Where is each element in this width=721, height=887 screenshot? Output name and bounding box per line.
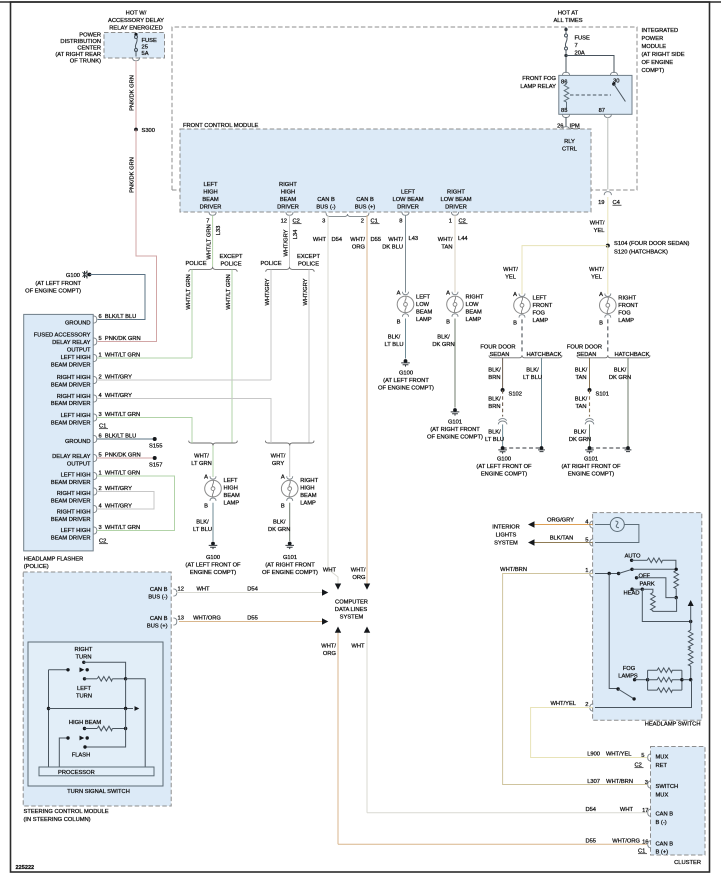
svg-text:HEADLAMP FLASHER: HEADLAMP FLASHER [24, 557, 84, 563]
label FOUR DOOR SEDAN / HATCHBACK left fog [480, 345, 561, 358]
svg-text:PROCESSOR: PROCESSOR [58, 770, 95, 776]
wire FCM pin 8 to left low beam lamp WHT/DK BLU [405, 215, 407, 292]
svg-text:WHT/YEL: WHT/YEL [550, 701, 576, 707]
node below fuse 7 [564, 54, 567, 57]
processor box [39, 767, 154, 776]
wire WHT/LT GRN police branch (into flasher pin 1) [191, 269, 193, 358]
ground G101 fog dashed tie [590, 447, 629, 449]
svg-text:TURN: TURN [76, 694, 92, 700]
svg-text:ENGINE COMPT): ENGINE COMPT) [568, 472, 614, 478]
svg-text:LAMP: LAMP [416, 317, 432, 323]
wire pin 7 to left split [212, 215, 214, 266]
wire BLK/DK GRN hatchback branch [627, 358, 629, 448]
svg-text:WHT/: WHT/ [350, 237, 365, 243]
wire bottom bus to fog junction [595, 680, 692, 708]
fog resistor bank [646, 678, 649, 681]
wire WHT/ORG from cluster up into data lines system [337, 633, 339, 845]
svg-text:G101: G101 [448, 420, 462, 426]
node at fuse 25 top [134, 33, 137, 36]
svg-text:5: 5 [641, 753, 644, 759]
svg-text:RIGHT: RIGHT [618, 296, 636, 302]
svg-text:L43: L43 [409, 236, 419, 242]
svg-text:(POLICE): (POLICE) [24, 564, 49, 570]
wire WHT/ORG D55 from steering module to data lines system [179, 621, 322, 623]
svg-text:DRIVER: DRIVER [200, 205, 222, 211]
relay switch arm [612, 82, 615, 85]
svg-text:RIGHT HIGH: RIGHT HIGH [57, 510, 91, 516]
wire WHT/BRN from switch to cluster pin 3 [503, 574, 647, 785]
wire BLK/LT BLU to G100 [502, 424, 504, 448]
svg-text:POWER: POWER [79, 33, 101, 39]
svg-text:7: 7 [575, 43, 578, 49]
arrow down WHT/ORG [364, 584, 370, 590]
headlamp flasher box [24, 314, 94, 551]
svg-text:RIGHT: RIGHT [75, 647, 93, 653]
svg-text:HOT W/: HOT W/ [126, 11, 147, 17]
svg-text:COMPUTER: COMPUTER [335, 600, 368, 606]
wire label WHT/GRY [271, 454, 286, 468]
svg-text:LEFT: LEFT [224, 478, 239, 484]
svg-text:B: B [446, 320, 450, 326]
svg-text:85: 85 [561, 108, 567, 114]
turn switch arm 1 [49, 669, 69, 671]
svg-text:WHT: WHT [313, 237, 327, 243]
wire junction down to bus [125, 679, 127, 709]
split bracket left fog [489, 355, 562, 358]
svg-text:INTERIOR: INTERIOR [492, 525, 519, 531]
svg-text:225222: 225222 [16, 865, 35, 871]
wire fuse 7 to relay pin 30 [566, 56, 614, 74]
svg-text:ORG: ORG [352, 245, 366, 251]
svg-text:DELAY RELAY: DELAY RELAY [52, 454, 91, 460]
svg-text:(AT LEFT FRONT OF: (AT LEFT FRONT OF [476, 464, 532, 470]
svg-text:WHT/: WHT/ [271, 454, 286, 460]
computer data lines system label [335, 600, 368, 621]
svg-text:8: 8 [399, 219, 402, 225]
svg-text:HEADLAMP SWITCH: HEADLAMP SWITCH [645, 722, 701, 728]
svg-text:WHT/BRN: WHT/BRN [500, 567, 527, 573]
svg-text:CAN B: CAN B [356, 197, 374, 203]
wire pin 12 to right split [289, 215, 291, 266]
svg-text:DK GRN: DK GRN [432, 342, 454, 348]
svg-text:D55: D55 [371, 237, 382, 243]
main bus horizontal with end arrow [47, 707, 50, 710]
svg-text:BUS (-): BUS (-) [148, 595, 167, 601]
svg-text:(AT RIGHT FRONT OF: (AT RIGHT FRONT OF [562, 464, 621, 470]
svg-text:BEAM: BEAM [280, 197, 297, 203]
wire head contact down to lower bus [642, 589, 690, 621]
svg-text:CLUSTER: CLUSTER [674, 860, 701, 866]
svg-text:B: B [397, 320, 401, 326]
svg-text:HATCHBACK: HATCHBACK [526, 352, 561, 358]
svg-text:FOG: FOG [623, 666, 636, 672]
svg-text:D54: D54 [585, 807, 596, 813]
svg-text:WHT: WHT [196, 587, 210, 593]
svg-text:FRONT: FRONT [618, 303, 638, 309]
svg-text:MUX: MUX [656, 793, 669, 799]
flasher pin 5 C1 FUSED ACCESSORY DELAY RELAY OUTPUT [34, 333, 91, 354]
wire pin 4 output down to merge [97, 399, 271, 444]
svg-text:ORG/GRY: ORG/GRY [547, 518, 574, 524]
high beam contact and resistor [83, 727, 86, 730]
svg-text:LEFT HIGH: LEFT HIGH [61, 528, 91, 534]
wire WHT from cluster up into data lines system [366, 633, 368, 813]
illumination bulb in switch [610, 518, 624, 532]
svg-text:RIGHT: RIGHT [447, 190, 465, 196]
FCM label CAN B BUS (-) [316, 197, 335, 211]
svg-text:BEAM: BEAM [224, 493, 241, 499]
wire steering pin 12 internal stub [177, 592, 180, 594]
label EXCEPT POLICE right split [297, 254, 320, 268]
svg-text:DRIVER: DRIVER [397, 205, 419, 211]
wire pin 6 C2 to splice S155 [97, 438, 155, 440]
FCM pin 8 connector [402, 212, 409, 215]
svg-text:GROUND: GROUND [65, 321, 91, 327]
svg-text:LAMP RELAY: LAMP RELAY [520, 84, 556, 90]
svg-text:LT BLU: LT BLU [385, 342, 404, 348]
left turn contact and resistor [83, 677, 86, 680]
svg-text:WHT: WHT [351, 644, 365, 650]
wire fog lamp B down to split (dashed) [607, 319, 609, 353]
svg-text:12: 12 [178, 587, 184, 593]
arrow left ORG/GRY [528, 521, 535, 527]
inline connector left fog ground wire [498, 419, 507, 425]
svg-text:WHT/LT GRN: WHT/LT GRN [207, 224, 213, 259]
split bracket pin 12 [266, 267, 315, 272]
svg-text:B (-): B (-) [656, 820, 667, 826]
svg-text:HATCHBACK: HATCHBACK [614, 352, 649, 358]
wire BLK/DK GRN to G101 [589, 424, 591, 448]
svg-text:RIGHT: RIGHT [279, 182, 297, 188]
svg-text:BEAM DRIVER: BEAM DRIVER [51, 517, 91, 523]
svg-text:7: 7 [206, 219, 209, 225]
svg-text:BLK/TAN: BLK/TAN [550, 536, 574, 542]
top edge line [0, 1, 721, 3]
node at fuse 7 top [564, 28, 567, 31]
svg-text:WHT/: WHT/ [351, 568, 366, 574]
svg-text:OF ENGINE: OF ENGINE [642, 60, 674, 66]
flash contact [83, 745, 86, 748]
arrow up WHT [364, 627, 370, 633]
svg-text:OF ENGINE COMPT): OF ENGINE COMPT) [25, 289, 81, 295]
svg-text:LOW BEAM: LOW BEAM [441, 197, 472, 203]
feed label HOT W/ ACCESSORY DELAY RELAY ENERGIZED [108, 11, 164, 32]
svg-text:BEAM DRIVER: BEAM DRIVER [51, 401, 91, 407]
svg-text:HIGH: HIGH [224, 486, 238, 492]
svg-text:CAN B: CAN B [150, 616, 168, 622]
wire WHT CAN from FCM pin 3 down to data lines system [328, 215, 338, 583]
svg-text:PARK: PARK [640, 582, 655, 588]
fuse 7 20A [565, 34, 568, 50]
svg-text:LEFT: LEFT [533, 296, 548, 302]
steering pin 13 CAN B BUS (+) [147, 616, 168, 630]
svg-text:TAN: TAN [575, 375, 586, 381]
ground G100 left high beam [209, 542, 218, 550]
svg-text:LAMP: LAMP [533, 318, 549, 324]
wire fuse 7 to relay pin 86 [565, 50, 567, 73]
head resistor loop [642, 589, 653, 592]
svg-text:ACCESSORY DELAY: ACCESSORY DELAY [108, 18, 164, 24]
flasher pin 4 C1 RIGHT HIGH BEAM DRIVER [51, 394, 91, 407]
svg-text:WHT/BRN: WHT/BRN [606, 779, 633, 785]
svg-text:LEFT HIGH: LEFT HIGH [61, 413, 91, 419]
svg-text:SEDAN: SEDAN [490, 352, 510, 358]
svg-text:OF TRUNK): OF TRUNK) [70, 59, 101, 65]
front fog lamp relay box [559, 75, 632, 114]
svg-text:(AT LEFT FRONT OF: (AT LEFT FRONT OF [185, 563, 241, 569]
svg-text:HIGH BEAM: HIGH BEAM [69, 720, 101, 726]
front fog lamp relay label [520, 76, 556, 90]
svg-text:CAN B: CAN B [656, 842, 674, 848]
svg-text:S300: S300 [142, 128, 155, 134]
wire ORG/GRY to interior lights [533, 524, 593, 526]
svg-text:RIGHT: RIGHT [466, 295, 484, 301]
svg-text:BLK/: BLK/ [488, 368, 501, 374]
svg-text:POLICE: POLICE [298, 262, 319, 268]
svg-text:BLK/: BLK/ [196, 520, 209, 526]
svg-text:S101: S101 [596, 392, 609, 398]
split bracket right fog [577, 355, 650, 358]
long vertical resistor on right [690, 622, 692, 631]
svg-text:BLK/: BLK/ [488, 397, 501, 403]
FCM pin 1 C2 connector [451, 212, 458, 215]
right turn contact and wire [82, 661, 85, 664]
svg-text:BLK/: BLK/ [614, 368, 627, 374]
svg-text:87: 87 [599, 108, 605, 114]
power distribution center label [55, 33, 101, 65]
splice S300 [134, 128, 138, 132]
svg-text:LT BLU: LT BLU [485, 437, 504, 443]
svg-text:FUSED ACCESSORY: FUSED ACCESSORY [34, 333, 91, 339]
svg-text:PNK/DK GRN: PNK/DK GRN [130, 157, 136, 193]
svg-text:LT GRN: LT GRN [191, 461, 212, 467]
svg-text:WHT/GRY: WHT/GRY [283, 229, 289, 256]
svg-text:OF ENGINE COMPT): OF ENGINE COMPT) [378, 386, 434, 392]
fog switch contact [633, 678, 636, 681]
svg-text:LOW: LOW [466, 302, 480, 308]
label FOG LAMPS [618, 666, 638, 680]
flasher pin 2 C1 RIGHT HIGH BEAM DRIVER [51, 375, 91, 389]
merge bracket left high beam [189, 441, 238, 446]
split bracket pin 7 [189, 267, 238, 272]
svg-text:(AT LEFT FRONT: (AT LEFT FRONT [35, 281, 81, 287]
svg-text:MUX: MUX [656, 755, 669, 761]
integrated power module dashed boundary [172, 27, 637, 190]
svg-text:G100: G100 [66, 273, 80, 279]
svg-text:MODULE: MODULE [642, 44, 667, 50]
flasher pin 4 C2 RIGHT HIGH BEAM DRIVER [51, 510, 91, 524]
relay pin 30 connector [610, 72, 617, 75]
svg-text:FRONT FOG: FRONT FOG [522, 76, 556, 82]
svg-text:LT BLU: LT BLU [193, 527, 212, 533]
wire junction to right leg [126, 679, 146, 767]
svg-text:LAMP: LAMP [618, 318, 634, 324]
svg-text:WHT/GRY: WHT/GRY [303, 278, 309, 305]
auto contact and resistor [630, 559, 633, 562]
svg-text:A: A [513, 292, 517, 298]
svg-text:B (+): B (+) [656, 850, 669, 856]
svg-text:(AT RIGHT FRONT: (AT RIGHT FRONT [430, 427, 480, 433]
ground G101 right low beam [451, 408, 460, 416]
svg-text:ORG: ORG [323, 651, 337, 657]
junction node right of left turn resistor [124, 677, 127, 680]
arrow right WHT [322, 589, 328, 595]
svg-text:FOG: FOG [533, 311, 546, 317]
svg-text:WHT/: WHT/ [388, 237, 403, 243]
svg-text:5: 5 [585, 538, 588, 544]
svg-text:DK GRN: DK GRN [569, 437, 591, 443]
relay pin 85 connector [562, 114, 569, 117]
svg-text:L307: L307 [587, 779, 600, 785]
left front fog lamp [514, 297, 531, 314]
ground G100 reference star [25, 271, 91, 295]
wire PNK/DK GRN from fuse 25 down to S300 [135, 61, 137, 130]
wire WHT/ORG CAN from FCM pin 2 down to data lines system [366, 215, 368, 583]
svg-text:FOUR DOOR: FOUR DOOR [567, 345, 602, 351]
svg-text:G101: G101 [283, 555, 297, 561]
svg-text:BUS (+): BUS (+) [147, 624, 168, 630]
svg-text:DRIVER: DRIVER [277, 205, 299, 211]
wire WHT horizontal to cluster pin 17 [367, 812, 647, 814]
svg-text:(AT RIGHT FRONT: (AT RIGHT FRONT [265, 563, 315, 569]
wire pin 3 output down to merge [97, 418, 192, 444]
flasher pin 2 C2 RIGHT HIGH BEAM DRIVER [51, 491, 91, 505]
right low beam lamp [447, 296, 464, 313]
svg-text:BRN: BRN [488, 375, 500, 381]
fuse 7 value label [575, 36, 591, 57]
wire BLK/BRN sedan branch to S102 [502, 358, 504, 390]
svg-text:SWITCH: SWITCH [656, 784, 679, 790]
svg-text:FRONT: FRONT [533, 303, 553, 309]
wire BLK/DK GRN to G101 [454, 319, 456, 408]
svg-text:5 PNK/DK GRN: 5 PNK/DK GRN [99, 336, 141, 342]
svg-text:2: 2 [361, 219, 364, 225]
feed label HOT AT ALL TIMES [553, 11, 582, 25]
svg-text:BEAM: BEAM [416, 310, 433, 316]
svg-text:BRN: BRN [488, 404, 500, 410]
svg-text:LAMP: LAMP [224, 501, 240, 507]
wire PNK/DK GRN from S300 down to flasher pin 5 [98, 130, 157, 342]
wire BLK/TAN sedan branch to S101 [589, 358, 591, 390]
svg-text:TAN: TAN [575, 404, 586, 410]
fuse 25 5A [135, 36, 138, 52]
svg-text:S104 (FOUR DOOR SEDAN): S104 (FOUR DOOR SEDAN) [614, 241, 689, 247]
wire label WHT/LT GRN [191, 454, 212, 468]
svg-text:LEFT HIGH: LEFT HIGH [61, 355, 91, 361]
svg-text:OFF: OFF [639, 574, 651, 580]
flasher pin 3 C1 LEFT HIGH BEAM DRIVER [51, 413, 91, 427]
svg-text:BEAM DRIVER: BEAM DRIVER [51, 536, 91, 542]
ground G100 left low beam [401, 359, 410, 367]
svg-text:L900: L900 [587, 752, 600, 758]
svg-text:WHT/: WHT/ [194, 454, 209, 460]
svg-text:EXCEPT: EXCEPT [219, 254, 242, 260]
svg-text:WHT/: WHT/ [503, 267, 518, 273]
cluster box [651, 747, 706, 856]
svg-text:RIGHT HIGH: RIGHT HIGH [57, 375, 91, 381]
FCM pin 12 C2 connector [286, 212, 293, 215]
svg-text:BLK/: BLK/ [526, 368, 539, 374]
svg-text:TURN: TURN [76, 655, 92, 661]
arrow down WHT [335, 584, 341, 590]
svg-text:G101: G101 [584, 457, 598, 463]
svg-text:D55: D55 [585, 839, 596, 845]
svg-text:INTEGRATED: INTEGRATED [642, 28, 679, 34]
right front fog lamp [600, 297, 617, 314]
svg-text:AUTO: AUTO [625, 554, 641, 560]
wire BLK/TAN to interior lights [533, 542, 593, 544]
wire BLK/LT BLU from G100 to flasher pin 6 [90, 275, 146, 320]
svg-text:ALL TIMES: ALL TIMES [553, 18, 582, 24]
svg-text:OF ENGINE COMPT): OF ENGINE COMPT) [427, 435, 483, 441]
svg-text:OUTPUT: OUTPUT [67, 348, 91, 354]
FCM CAN pins wide connector [326, 213, 369, 217]
wires bulb to pins 4 and 5 [595, 525, 639, 543]
steering control module label [24, 809, 109, 823]
wire WHT/GRY police branch (into flasher pin 2) [270, 269, 272, 380]
svg-text:HIGH: HIGH [203, 190, 217, 196]
svg-text:LT BLU: LT BLU [523, 375, 542, 381]
arrow up WHT/ORG [335, 627, 341, 633]
wire fog lamp B down to sedan/hatchback split (dashed) [521, 319, 523, 353]
wire BLK/DK GRN to G101 [289, 503, 291, 541]
svg-text:BUS (-): BUS (-) [316, 205, 335, 211]
svg-text:LIGHTS: LIGHTS [496, 533, 517, 539]
svg-text:D54: D54 [247, 587, 258, 593]
FCM label LEFT HIGH BEAM DRIVER [200, 182, 222, 211]
ground G100 fog dashed tie [503, 447, 542, 449]
svg-text:BLK/: BLK/ [575, 397, 588, 403]
left bus vertical [48, 670, 50, 767]
svg-text:G100: G100 [399, 371, 413, 377]
relay pin 86 connector [562, 72, 569, 75]
svg-text:WHT/ORG: WHT/ORG [612, 839, 640, 845]
front control module box [180, 129, 591, 212]
wire loop pin 2 C2 to pin 4 C2 WHT/GRY [97, 492, 154, 510]
arrow up from lower bus [690, 606, 692, 622]
wire BLK/TAN below S101 (dashed) [589, 390, 591, 417]
merge bracket right high beam [265, 441, 314, 446]
fuse 25 value label [142, 38, 158, 57]
flasher pin 5 C2 DELAY RELAY OUTPUT [52, 454, 91, 468]
integrated power module label [642, 28, 685, 74]
svg-text:BEAM DRIVER: BEAM DRIVER [51, 499, 91, 505]
steering pin 12 CAN B BUS (-) [148, 587, 167, 601]
splice S101 [588, 388, 592, 392]
svg-text:TURN SIGNAL SWITCH: TURN SIGNAL SWITCH [67, 789, 130, 795]
svg-text:(AT RIGHT REAR: (AT RIGHT REAR [55, 52, 101, 58]
svg-text:3: 3 [322, 219, 325, 225]
wire merge to right high beam lamp [289, 446, 291, 477]
svg-text:A: A [599, 292, 603, 298]
flasher pin 3 C2 LEFT HIGH BEAM DRIVER [51, 528, 91, 542]
flasher pin 1 C2 LEFT HIGH BEAM DRIVER [51, 473, 91, 487]
svg-text:L44: L44 [458, 236, 468, 242]
svg-text:BLK/: BLK/ [575, 368, 588, 374]
svg-text:YEL: YEL [591, 275, 602, 281]
svg-text:B: B [599, 321, 603, 327]
svg-text:B: B [204, 504, 208, 510]
wire WHT/ORG horizontal to cluster pin 16 [338, 843, 647, 845]
power distribution center box [104, 33, 165, 59]
svg-text:DRIVER: DRIVER [445, 205, 467, 211]
svg-text:DK BLU: DK BLU [382, 245, 403, 251]
svg-text:HIGH: HIGH [281, 190, 295, 196]
svg-text:ENGINE COMPT): ENGINE COMPT) [481, 472, 527, 478]
IPM pin 19 C4 connector [604, 192, 611, 195]
svg-text:YEL: YEL [505, 275, 516, 281]
svg-text:12: 12 [281, 219, 287, 225]
